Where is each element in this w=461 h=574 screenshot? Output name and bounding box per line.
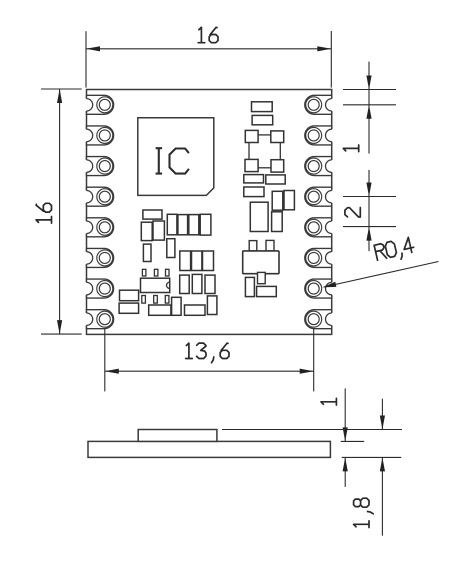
- inductor L1: [250, 202, 268, 231]
- capacitor C8: [167, 239, 175, 258]
- resistor R1: [180, 251, 191, 271]
- capacitor C25: [257, 286, 277, 296]
- crystal X1 (4-pad with interconnect ring): [245, 130, 284, 172]
- castellated pad R5 (right, with plated hole): [305, 218, 338, 237]
- module board outline (top view): [87, 90, 332, 335]
- capacitor C23: [272, 212, 283, 232]
- capacitor C5: [178, 215, 188, 235]
- castellated pad R4 (right, with plated hole): [305, 187, 338, 206]
- capacitor C17: [252, 115, 273, 124]
- capacitor C10: [120, 290, 139, 301]
- dimension 1 (board thickness): [321, 388, 401, 487]
- capacitor C6: [189, 215, 199, 235]
- castellated pad L4 (left, with plated hole): [80, 187, 113, 206]
- capacitor C22: [284, 191, 294, 210]
- capacitor C21: [272, 191, 283, 210]
- capacitor C14: [185, 305, 206, 315]
- op IC U1 (main chip, chamfered corner): [138, 118, 214, 196]
- castellated pad R8 (right, with plated hole): [305, 310, 338, 329]
- dimension 1 (edge to first pad): [343, 62, 396, 154]
- castellated pad L3 (left, with plated hole): [80, 157, 113, 176]
- capacitor C2: [141, 222, 152, 240]
- castellated pad L2 (left, with plated hole): [80, 126, 113, 145]
- castellated pad R7 (right, with plated hole): [305, 279, 338, 298]
- capacitor C11: [119, 303, 139, 313]
- capacitor C7: [200, 214, 211, 235]
- capacitor C3: [153, 221, 164, 240]
- capacitor C16: [252, 102, 273, 112]
- dimension 1,8 (total height): [222, 399, 402, 536]
- resistor R3: [203, 251, 214, 271]
- dimension 16 (left height): [36, 89, 82, 334]
- capacitor C1: [143, 210, 162, 219]
- leader R0,4 (pad hole radius callout): [322, 237, 438, 288]
- capacitor C13: [172, 297, 182, 315]
- resistor R2: [192, 251, 202, 271]
- castellated pad L1 (left, with plated hole): [80, 95, 113, 114]
- castellated pad L8 (left, with plated hole): [80, 310, 113, 329]
- castellated pad L5 (left, with plated hole): [80, 218, 113, 237]
- IC U2 (SOIC-6 with pin-1 notch): [141, 269, 170, 303]
- PCB side view board: [88, 441, 330, 457]
- castellated pad R3 (right, with plated hole): [305, 157, 338, 176]
- castellated pad L7 (left, with plated hole): [80, 279, 113, 298]
- castellated pad R6 (right, with plated hole): [305, 248, 338, 267]
- side view component/shield block: [138, 430, 217, 442]
- resistor R4: [180, 275, 190, 293]
- resistor R6: [205, 275, 215, 293]
- capacitor C18: [244, 175, 264, 183]
- capacitor C15: [207, 296, 217, 315]
- capacitor C12: [149, 305, 171, 315]
- transistor Q1 (SOT body with pins): [243, 240, 279, 283]
- dimension 16 (top width): [86, 27, 331, 87]
- capacitor C9: [143, 244, 151, 261]
- capacitor C24: [245, 277, 254, 296]
- dimension 13,6 (hole span): [105, 328, 314, 391]
- capacitor C19: [266, 175, 285, 184]
- castellated pad R1 (right, with plated hole): [305, 95, 338, 114]
- resistor R5: [192, 274, 202, 293]
- capacitor C20: [244, 187, 264, 197]
- dimension 2 (pad pitch): [343, 170, 396, 251]
- castellated pad L6 (left, with plated hole): [80, 248, 113, 267]
- castellated pad R2 (right, with plated hole): [305, 126, 338, 145]
- capacitor C4: [167, 214, 177, 235]
